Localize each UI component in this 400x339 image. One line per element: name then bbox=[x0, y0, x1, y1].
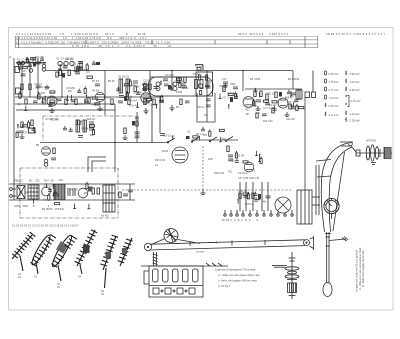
resistor ad3 bbox=[80, 62, 82, 67]
wire v t3 bbox=[252, 182, 254, 211]
svg-text:R12 1M: R12 1M bbox=[286, 118, 295, 121]
svg-text:R18: R18 bbox=[208, 158, 213, 161]
chassis divider bbox=[149, 285, 203, 287]
meter face bbox=[324, 198, 339, 213]
svg-text:C77 1n: C77 1n bbox=[263, 107, 271, 110]
rail tick 1 bbox=[206, 263, 210, 266]
coil assembly A3 with core bbox=[50, 234, 77, 289]
rail tick 2 bbox=[212, 263, 216, 266]
resistor Rmb3h bbox=[90, 125, 95, 127]
capacitor Cif17 bbox=[116, 88, 120, 90]
resistor Rrt5h bbox=[299, 107, 304, 109]
switch SK2 bbox=[192, 138, 199, 142]
capacitor ad8 bbox=[33, 100, 38, 102]
capacitor Cpw5 bbox=[53, 191, 57, 193]
capacitor Cif11 bbox=[136, 92, 140, 94]
shaft disc 1 bbox=[366, 146, 369, 160]
resistor Rsw1h bbox=[219, 129, 224, 131]
svg-text:R68 4k7: R68 4k7 bbox=[285, 97, 295, 100]
mark cluster bbox=[197, 68, 201, 71]
switch SK1 bbox=[168, 138, 175, 142]
svg-text:C29 1n: C29 1n bbox=[82, 69, 90, 72]
wire stub dt4 bbox=[219, 94, 221, 99]
capacitor C11 bbox=[159, 100, 164, 102]
wire stub fe8 bbox=[42, 97, 44, 102]
wire dashdot box1 left bbox=[42, 116, 44, 141]
resistor Rrt1 bbox=[296, 106, 298, 111]
svg-text:DL94: DL94 bbox=[162, 150, 169, 153]
capacitor Cif113 bbox=[142, 88, 146, 90]
svg-text:C47 C48 R30 C49: C47 C48 R30 C49 bbox=[238, 177, 260, 180]
wire stub rf0 bbox=[59, 64, 61, 69]
svg-text:B2 90: B2 90 bbox=[108, 80, 115, 83]
wire dashdot bottom bbox=[20, 217, 118, 219]
coil L3 bbox=[42, 64, 46, 68]
wire stub fe2 bbox=[25, 106, 27, 111]
trimmer C5 bbox=[78, 61, 83, 63]
wire stub sw2 bbox=[220, 137, 222, 142]
svg-text:290: 290 bbox=[135, 86, 140, 89]
wire bottom row lower bus bbox=[9, 199, 135, 201]
capacitor Cmb0 bbox=[63, 127, 67, 129]
node pw13 bbox=[46, 183, 48, 185]
loop coil a bbox=[156, 82, 160, 86]
tube 1 bbox=[153, 269, 159, 282]
resistor Rav2h bbox=[272, 101, 277, 103]
resistor Rps5h bbox=[243, 161, 248, 163]
resistor Rin9h bbox=[22, 67, 27, 69]
svg-text:S28: S28 bbox=[41, 92, 46, 95]
right bracket bbox=[313, 236, 315, 250]
node fe6 bbox=[45, 96, 47, 98]
capacitor Ct1 bbox=[244, 195, 249, 197]
resistor R9 bbox=[149, 84, 151, 90]
resistor Rt2 bbox=[252, 193, 254, 199]
svg-text:0,35 mA/: 0,35 mA/ bbox=[329, 73, 339, 76]
resistor R12 bbox=[177, 77, 179, 83]
svg-text:C14 0,1: C14 0,1 bbox=[34, 83, 43, 86]
wire v antenna 2 bbox=[29, 61, 31, 97]
node j6 bbox=[114, 142, 116, 144]
resistor Rif110h bbox=[147, 99, 152, 101]
capacitor C21 bbox=[19, 130, 24, 132]
svg-text:d. 76 trg 2: d. 76 trg 2 bbox=[218, 284, 231, 288]
resistor R8 bbox=[126, 94, 128, 100]
resistor Rfe3 bbox=[19, 93, 21, 98]
svg-text:4A: 4A bbox=[18, 276, 21, 279]
shaft link bbox=[352, 147, 356, 152]
resistor ad9 bbox=[25, 99, 27, 104]
svg-text:0,11 mA/: 0,11 mA/ bbox=[329, 114, 339, 117]
osc box res a bbox=[199, 75, 201, 80]
node sw0 bbox=[172, 135, 174, 137]
stack right caps bbox=[206, 98, 211, 100]
svg-text:R22 C39: R22 C39 bbox=[263, 120, 273, 123]
header tick 1 bbox=[18, 36, 20, 47]
svg-text:120: 120 bbox=[22, 70, 27, 73]
antenna curve outer bbox=[321, 143, 348, 232]
svg-text:R28: R28 bbox=[31, 59, 36, 62]
header right edge bbox=[317, 36, 319, 47]
svg-text:AFSTEM: AFSTEM bbox=[366, 140, 376, 143]
capacitor Ctb6 bbox=[254, 199, 258, 201]
node mx1 bbox=[171, 86, 173, 88]
resistor extra6 bbox=[128, 99, 130, 105]
node ps4 bbox=[259, 154, 261, 156]
cord arrows bbox=[208, 241, 216, 243]
wire grid bus bbox=[16, 109, 115, 111]
svg-text:C30: C30 bbox=[58, 179, 63, 182]
svg-text:1,05 mA/: 1,05 mA/ bbox=[350, 81, 360, 84]
wire mid bus with switches bbox=[40, 142, 168, 144]
loop coil b bbox=[173, 82, 177, 86]
svg-text:P5 3/6: P5 3/6 bbox=[92, 80, 100, 83]
svg-text:0,95 mA/: 0,95 mA/ bbox=[350, 73, 360, 76]
capacitor Crf2 bbox=[77, 68, 81, 70]
wire left rail bbox=[13, 58, 15, 184]
capacitor Cfe10 bbox=[48, 104, 52, 106]
capacitor C30 bbox=[228, 158, 233, 160]
resistor Rrf5h bbox=[78, 68, 83, 70]
meter stem bbox=[331, 214, 333, 219]
resistor R13 bbox=[184, 77, 186, 83]
trimmer C15 bbox=[206, 80, 211, 82]
resistor Rtb5 bbox=[248, 194, 250, 199]
cord tangent 2 bbox=[178, 240, 201, 244]
svg-text:R20: R20 bbox=[254, 90, 259, 93]
node in8 bbox=[32, 57, 34, 59]
node av7 bbox=[259, 93, 261, 95]
resistor R23 bbox=[136, 121, 138, 126]
resistor Rfe7h bbox=[50, 91, 55, 93]
wire top stub bbox=[195, 64, 203, 66]
legend item R6 bbox=[346, 118, 347, 122]
capacitor C17 bbox=[223, 81, 228, 83]
resistor Rfe23 bbox=[84, 88, 86, 93]
svg-text:P4 3/6: P4 3/6 bbox=[92, 90, 100, 93]
resistor Rin5 bbox=[19, 64, 21, 69]
capacitor C3 bbox=[21, 73, 26, 75]
svg-text:b. Helm mfd papde 400 her west: b. Helm mfd papde 400 her west bbox=[218, 279, 257, 283]
resistor Rmx4 bbox=[179, 82, 181, 87]
wire stub pw9 bbox=[88, 204, 90, 209]
rod collar 1 bbox=[326, 236, 331, 238]
wire stub left bottom bbox=[13, 184, 15, 200]
header tick 2 bbox=[85, 40, 87, 44]
swivel joint bbox=[340, 141, 353, 143]
wire v det tube bbox=[242, 71, 244, 92]
header line 2 bbox=[15, 43, 318, 45]
svg-text:DK92: DK92 bbox=[176, 91, 183, 94]
node av1 bbox=[255, 88, 257, 90]
tube B3 mixer bbox=[141, 93, 151, 103]
shaft left end bbox=[356, 150, 360, 156]
svg-text:1500: 1500 bbox=[230, 83, 236, 86]
node mb2 bbox=[80, 120, 82, 122]
electrolytic body 3 bbox=[96, 62, 100, 65]
wire v antenna 3 bbox=[37, 63, 39, 97]
svg-text:C14 R8: C14 R8 bbox=[165, 74, 174, 77]
svg-text:R13 1M: R13 1M bbox=[236, 154, 244, 157]
coil S1 circles bbox=[58, 61, 62, 65]
resistor Rif112 bbox=[161, 97, 163, 102]
ground gA bbox=[21, 134, 23, 137]
wire dashdot box2 bbox=[20, 167, 100, 169]
electrolytic body 6 bbox=[279, 92, 282, 97]
legend item L6 bbox=[325, 112, 326, 116]
svg-text:36 98 3.6 60 8 3 1 837 8 4 2.: 36 98 3.6 60 8 3 1 837 8 4 2.1 0 4.3 7 bbox=[326, 32, 385, 36]
shield corner inner bbox=[92, 161, 106, 172]
trimmer C23 bbox=[89, 127, 94, 129]
capacitor C12 bbox=[163, 78, 168, 80]
svg-text:C25 0,1: C25 0,1 bbox=[43, 185, 52, 188]
node j5 bbox=[242, 70, 244, 72]
shaft under marks bbox=[371, 162, 376, 164]
svg-text:93 0 6 36 0.6 2.3 1 837: 93 0 6 36 0.6 2.3 1 837 8 6 2.1 bbox=[238, 32, 289, 36]
wire stub av3 bbox=[254, 101, 256, 106]
resistor Rpw2h bbox=[53, 194, 58, 196]
tube 5 bbox=[193, 269, 199, 282]
cord top bbox=[151, 240, 306, 244]
coil assembly A6 bbox=[118, 238, 133, 266]
resistor Rb1 bbox=[92, 188, 94, 194]
svg-text:S9 452: S9 452 bbox=[101, 215, 110, 218]
right pulley bbox=[304, 240, 310, 246]
node j3 bbox=[149, 96, 151, 98]
resistor Rt1 bbox=[239, 193, 241, 199]
switch SK3 bbox=[210, 137, 217, 141]
rod collar 2 bbox=[326, 245, 331, 247]
resistor Rpw4 bbox=[48, 195, 50, 200]
resistor R20 bbox=[31, 120, 33, 126]
resistor R5 bbox=[68, 70, 70, 76]
wire stub if15 bbox=[126, 91, 128, 96]
capacitor extra3 bbox=[84, 100, 89, 102]
tube B1 bbox=[47, 96, 57, 106]
svg-text:R49: R49 bbox=[50, 92, 55, 95]
svg-text:C17: C17 bbox=[222, 78, 227, 81]
node fe0 bbox=[37, 95, 39, 97]
coil L2 bbox=[29, 69, 33, 73]
shaft disc 2 bbox=[371, 145, 375, 161]
capacitor cv1 bbox=[262, 113, 267, 115]
svg-text:690: 690 bbox=[222, 89, 227, 92]
node if13 bbox=[160, 81, 162, 83]
IF transformer S6 bbox=[76, 120, 79, 132]
resistor R14 bbox=[223, 86, 225, 92]
wire v if2 bbox=[136, 112, 138, 143]
svg-text:C15: C15 bbox=[287, 101, 292, 104]
svg-text:R1 4k7: R1 4k7 bbox=[18, 125, 26, 128]
tube B4 output bbox=[172, 147, 188, 163]
ground g5 bbox=[124, 135, 126, 138]
base mark bbox=[289, 295, 296, 297]
electrolytic body 7 bbox=[33, 62, 36, 67]
svg-text:R11 1M: R11 1M bbox=[50, 119, 58, 122]
capacitor Ctb0 bbox=[253, 193, 257, 195]
header left edge bbox=[14, 36, 16, 47]
wire v right link bbox=[312, 71, 314, 93]
resistor rv3 bbox=[289, 104, 291, 109]
electrolytic body 5 bbox=[230, 97, 233, 102]
wire stub ps6 bbox=[259, 156, 261, 161]
svg-text:65p: 65p bbox=[90, 134, 95, 137]
svg-text:2,16 mA/: 2,16 mA/ bbox=[350, 113, 360, 116]
osc coil S4 bbox=[200, 80, 203, 89]
node tb2 bbox=[237, 199, 239, 201]
svg-text:S60 4k7: S60 4k7 bbox=[87, 118, 96, 121]
capacitor C28 bbox=[160, 133, 165, 135]
tube B6 detector bbox=[278, 98, 288, 108]
wire seg bbox=[16, 62, 46, 64]
wire stub ps0 bbox=[256, 151, 258, 156]
coil under bbox=[44, 159, 48, 163]
electrolytic body 4 bbox=[168, 85, 171, 90]
coil assembly A2 former bbox=[30, 234, 56, 279]
rail tick 3 bbox=[218, 263, 222, 266]
svg-text:0,57: 0,57 bbox=[43, 199, 48, 202]
resistor Rfe27h bbox=[92, 97, 97, 99]
resistor Rsw3 bbox=[209, 131, 211, 136]
node sw6 bbox=[199, 136, 201, 138]
gear hub bbox=[287, 279, 297, 281]
wire v t2 bbox=[245, 182, 247, 211]
resistor Rmb5 bbox=[92, 130, 94, 135]
header line top bbox=[15, 35, 318, 37]
bandfilter loop bbox=[148, 77, 213, 96]
wire v t5 bbox=[267, 182, 269, 211]
node pw1 bbox=[33, 199, 35, 201]
small box M1 bbox=[16, 88, 21, 94]
svg-text:6 .76 4 8 6 30 7.6: 6 .76 4 8 6 30 7.6 1 7 3.1 - 6.017.6 30 … bbox=[72, 44, 171, 48]
wire stub fe28 bbox=[67, 95, 69, 100]
resistor R19 bbox=[21, 122, 23, 128]
legend item L3 bbox=[325, 87, 327, 91]
antenna cross tick 1 bbox=[316, 160, 331, 162]
wire v t1 bbox=[239, 182, 241, 211]
wire v output feed bbox=[304, 97, 306, 190]
header line 1 bbox=[15, 39, 318, 41]
box right 1 bbox=[296, 90, 302, 99]
capacitor ad4 bbox=[71, 99, 76, 101]
legend item R2 bbox=[346, 79, 347, 83]
cluster right caps bbox=[291, 92, 296, 94]
svg-text:C47 1n: C47 1n bbox=[222, 96, 230, 99]
wire stub rt6 bbox=[290, 91, 292, 96]
box right 2 bbox=[305, 92, 310, 98]
wire stub pw3 bbox=[74, 204, 76, 209]
svg-text:4,75 mA/: 4,75 mA/ bbox=[329, 81, 339, 84]
resistor ad1 bbox=[56, 72, 58, 77]
node j2 bbox=[104, 96, 106, 98]
node in2 bbox=[26, 57, 28, 59]
capacitor C1 bbox=[28, 64, 32, 66]
capacitor C13 bbox=[182, 85, 187, 87]
svg-text:2x rond: 2x rond bbox=[196, 251, 205, 254]
header tick 6 bbox=[289, 40, 291, 44]
svg-text:S3 S4: S3 S4 bbox=[193, 73, 200, 76]
wire stub in4 bbox=[28, 58, 30, 63]
capacitor bottom c bbox=[128, 189, 133, 191]
chassis left bracket bbox=[144, 271, 149, 284]
wire filament bus bbox=[15, 96, 160, 98]
resistor R16 bbox=[260, 91, 262, 97]
resistor ad5 bbox=[88, 98, 90, 103]
resistor R15 bbox=[254, 91, 256, 97]
svg-text:C...uitde met wire-paper 20mm: C...uitde met wire-paper 20mm afd bbox=[218, 273, 260, 277]
svg-text:B4 DAF91: B4 DAF91 bbox=[288, 78, 300, 81]
resistor R21 bbox=[124, 128, 126, 134]
node if19 bbox=[156, 104, 158, 106]
svg-text:7E: 7E bbox=[101, 293, 104, 296]
resistor Rav8h bbox=[263, 100, 268, 102]
wire v bottom x130 bbox=[129, 184, 131, 200]
wire stub tb4 bbox=[258, 195, 260, 200]
gear flange 2 bbox=[287, 271, 296, 274]
gear flange 1 bbox=[285, 267, 299, 270]
electrolytic body 1 bbox=[124, 96, 127, 101]
osc box circle bbox=[198, 84, 202, 88]
coil assembly A1 hatch bbox=[12, 232, 35, 279]
shaft line bbox=[356, 152, 392, 154]
svg-text:C16 0,1: C16 0,1 bbox=[163, 135, 172, 138]
tube 4 bbox=[183, 269, 189, 282]
mains plug bbox=[10, 188, 13, 191]
svg-text:S2 C8 C9: S2 C8 C9 bbox=[118, 76, 129, 79]
capacitor C19 bbox=[256, 99, 261, 101]
osc box cap bbox=[205, 84, 210, 86]
wire osc box bottom bbox=[197, 93, 215, 122]
capacitor ad2 bbox=[63, 65, 68, 67]
resistor Rps1 bbox=[235, 153, 237, 158]
transformer T2 laminated bbox=[28, 185, 39, 199]
tube bottom row 2 bbox=[78, 188, 88, 198]
svg-text:7,10 mA/: 7,10 mA/ bbox=[329, 97, 339, 100]
svg-text:O. Italie wire kogle) rdyne ab: O. Italie wire kogle) rdyne abc bbox=[361, 249, 365, 287]
antenna coil L1 bbox=[17, 61, 20, 64]
header tick 5 bbox=[266, 40, 268, 44]
box m2 bbox=[29, 128, 36, 133]
parts right of can bbox=[119, 192, 121, 198]
svg-text:0,95 mA/: 0,95 mA/ bbox=[350, 89, 360, 92]
svg-text:R32 4k7: R32 4k7 bbox=[129, 105, 139, 108]
svg-text:C24 50k: C24 50k bbox=[23, 132, 33, 135]
ground g1 bbox=[145, 108, 147, 111]
capacitor Cdt6 bbox=[223, 85, 227, 87]
tube 2 bbox=[163, 269, 169, 282]
gear flange 3 bbox=[285, 275, 299, 278]
node fe20 bbox=[84, 99, 86, 101]
svg-text:R40 220: R40 220 bbox=[69, 189, 79, 192]
rod upper joint bbox=[325, 233, 331, 235]
resistor R1 bbox=[15, 67, 20, 73]
legend item R1 bbox=[346, 71, 347, 75]
svg-text:300: 300 bbox=[15, 180, 20, 183]
svg-text:S1 S2 S3 S4 C1 C2 C6 C8 S5 C10: S1 S2 S3 S4 C1 C2 C6 C8 S5 C10 C12 S6 C1… bbox=[12, 225, 79, 228]
svg-text:R28 4k7: R28 4k7 bbox=[128, 99, 138, 102]
wire v mixer bbox=[104, 71, 106, 116]
svg-text:0,74: 0,74 bbox=[79, 103, 84, 106]
resistor Rav4 bbox=[253, 101, 255, 106]
chassis top shaft bbox=[153, 252, 155, 266]
node rt4 bbox=[291, 104, 293, 106]
resistor Rrf7 bbox=[86, 65, 88, 70]
capacitor Cin0 bbox=[25, 59, 29, 61]
header tick 4 bbox=[214, 40, 216, 44]
resistor rv1 bbox=[256, 113, 258, 118]
capacitor Cin6 bbox=[40, 58, 44, 60]
legend item R4 bbox=[346, 95, 347, 97]
